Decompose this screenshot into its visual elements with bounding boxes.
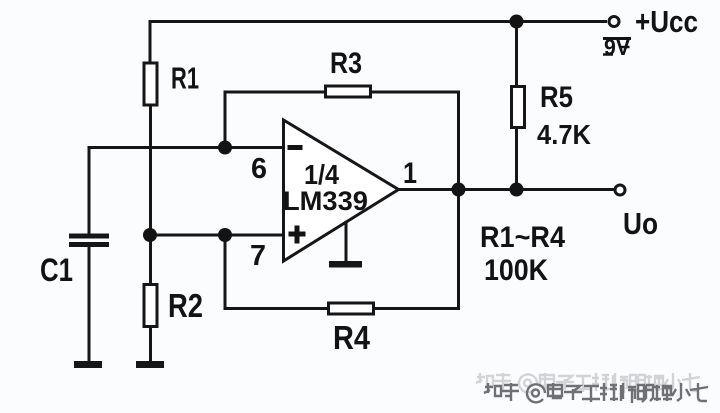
wire R5 lower segment xyxy=(515,128,518,191)
label 9V (printed upside-down in source) xyxy=(603,34,631,60)
resistor R4 xyxy=(329,303,374,356)
wire left rail middle segment xyxy=(149,106,152,285)
svg-text:7: 7 xyxy=(250,240,266,272)
svg-text:R1~R4: R1~R4 xyxy=(480,221,565,254)
wire R4 right segment xyxy=(375,307,460,310)
resistor R5 xyxy=(512,81,592,150)
svg-text:4.7K: 4.7K xyxy=(537,119,591,150)
svg-text:R1: R1 xyxy=(171,61,199,96)
svg-text:C1: C1 xyxy=(40,252,73,288)
wire non-inverting input (pin 7) xyxy=(150,234,282,237)
node at output / R5 xyxy=(510,183,524,197)
node at R1/R2/pin7 junction xyxy=(143,228,157,242)
wire output from op-amp xyxy=(398,188,614,191)
wire left rail upper segment xyxy=(149,20,152,63)
node at output / feedback vertical xyxy=(452,183,466,197)
op-amp U1 1/4 LM339 xyxy=(283,120,399,261)
resistor R2 xyxy=(144,285,203,327)
terminal +Ucc xyxy=(609,17,619,27)
node at pin 6 wire / R3 riser xyxy=(218,141,232,155)
wire R4 riser from pin 7 node xyxy=(224,235,227,310)
ground under R2 xyxy=(136,361,164,368)
wire left rail lower segment xyxy=(149,327,152,362)
node at R5 top xyxy=(510,15,524,29)
wire inverting input (pin 6) xyxy=(89,146,282,149)
ground at op-amp xyxy=(329,221,362,268)
svg-text:R2: R2 xyxy=(168,287,203,324)
ground under C1 xyxy=(74,361,102,368)
wire top supply rail xyxy=(150,20,607,23)
svg-text:1: 1 xyxy=(403,157,417,190)
svg-text:100K: 100K xyxy=(484,254,548,287)
node at pin 7 wire / R4 riser xyxy=(218,228,232,242)
svg-text:R4: R4 xyxy=(333,319,371,356)
svg-text:R5: R5 xyxy=(540,81,573,114)
watermark dark layer xyxy=(484,383,708,403)
svg-text:Uo: Uo xyxy=(623,206,658,241)
wire right feedback vertical xyxy=(457,91,460,311)
wire R5 branch xyxy=(515,20,518,86)
watermark light layer xyxy=(476,373,700,393)
svg-text:+Ucc: +Ucc xyxy=(635,4,698,39)
svg-text:R3: R3 xyxy=(330,47,362,80)
terminal Uo xyxy=(615,185,625,195)
resistor R3 xyxy=(326,47,371,97)
svg-text:LM339: LM339 xyxy=(283,186,368,216)
resistor R1 xyxy=(144,61,199,106)
wire R3 right segment xyxy=(372,91,460,94)
svg-text:6: 6 xyxy=(251,153,267,185)
wire R3 left segment xyxy=(224,91,326,94)
wire R3 riser from pin 6 node xyxy=(224,91,227,150)
capacitor C1 xyxy=(40,146,109,362)
wire R4 left segment xyxy=(224,307,329,310)
